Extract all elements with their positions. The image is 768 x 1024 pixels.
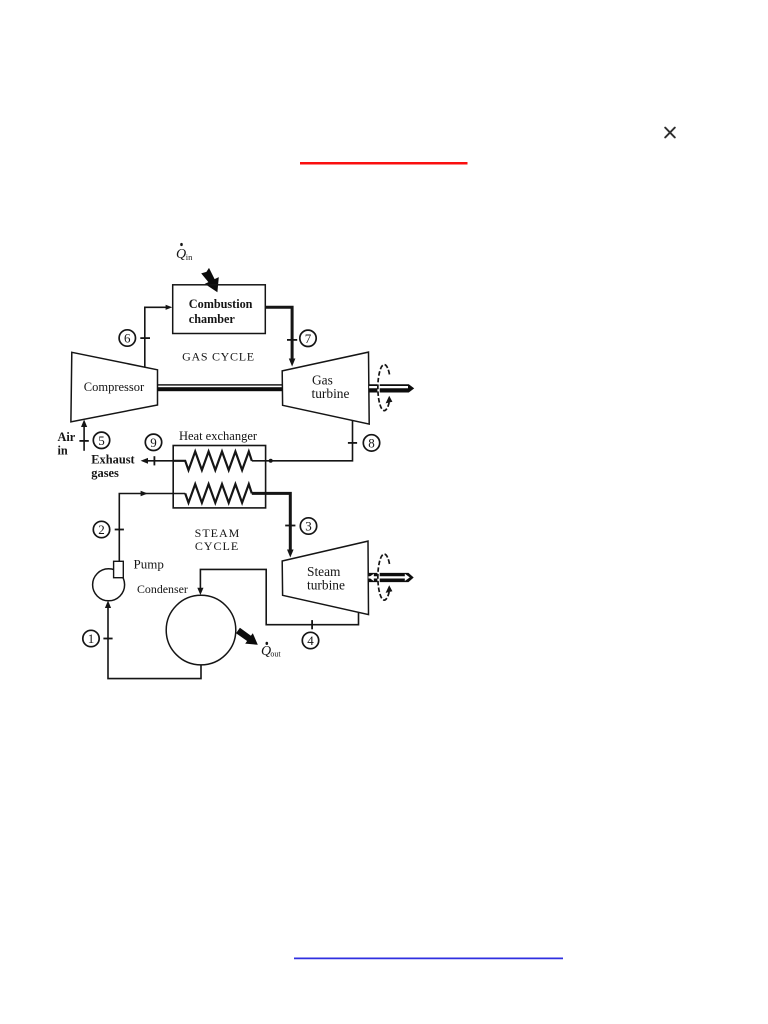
pump bbox=[93, 569, 125, 601]
flow arrowhead on wire bbox=[141, 491, 148, 497]
gas turbine output shaft bbox=[369, 384, 414, 392]
svg-text:6: 6 bbox=[124, 331, 131, 346]
svg-text:3: 3 bbox=[305, 519, 312, 534]
svg-text:in: in bbox=[186, 252, 193, 262]
rotation symbol (steam turbine shaft) bbox=[378, 554, 390, 600]
node 3 tick bbox=[285, 525, 295, 527]
node 7 bbox=[300, 330, 316, 346]
node 1 bbox=[83, 630, 99, 646]
steam turbine bbox=[282, 541, 368, 615]
svg-text:out: out bbox=[270, 650, 281, 659]
arrowhead into condenser bbox=[197, 588, 203, 595]
blue horizontal rule (bottom link underline) bbox=[294, 957, 563, 959]
heat exchanger box bbox=[173, 446, 265, 508]
node 2 tick bbox=[115, 529, 124, 531]
label Q_in bbox=[176, 243, 193, 262]
red horizontal rule bbox=[300, 162, 468, 165]
svg-text:Exhaust: Exhaust bbox=[91, 453, 135, 467]
node 8 tick bbox=[348, 442, 357, 444]
node 2 bbox=[93, 521, 109, 537]
gas turbine bbox=[282, 352, 369, 424]
svg-text:1: 1 bbox=[88, 631, 95, 646]
svg-text:Condenser: Condenser bbox=[137, 582, 188, 596]
node 3 bbox=[300, 518, 316, 534]
wire 3: heat exchanger to steam turbine (thick) bbox=[252, 493, 290, 551]
svg-text:4: 4 bbox=[307, 633, 314, 648]
label STEAM CYCLE bbox=[195, 526, 241, 553]
wire 6: compressor top to combustion chamber bbox=[145, 307, 167, 368]
svg-text:STEAM: STEAM bbox=[195, 526, 241, 540]
node 9 bbox=[145, 434, 161, 450]
svg-text:in: in bbox=[58, 444, 68, 458]
arrowhead into gas turbine bbox=[289, 359, 296, 367]
node 6 bbox=[119, 330, 135, 346]
compressor bbox=[71, 352, 158, 422]
arrowhead into combustion chamber bbox=[166, 305, 173, 310]
wire 1: condenser to pump bbox=[108, 605, 201, 679]
lower coil (steam side) bbox=[185, 484, 252, 503]
svg-text:5: 5 bbox=[98, 433, 105, 448]
svg-text:Air: Air bbox=[58, 430, 76, 444]
svg-text:8: 8 bbox=[368, 436, 375, 451]
rotation symbol (gas turbine shaft) bbox=[378, 365, 390, 411]
svg-text:2: 2 bbox=[98, 522, 105, 537]
wire 4: steam turbine to condenser bbox=[200, 569, 358, 624]
label Combustion chamber bbox=[189, 297, 253, 326]
wire 7: combustion chamber to gas turbine (thick) bbox=[265, 307, 292, 360]
Q_out heat arrow bbox=[236, 628, 258, 645]
svg-text:gases: gases bbox=[91, 466, 119, 480]
svg-text:GAS CYCLE: GAS CYCLE bbox=[182, 350, 255, 364]
svg-text:Heat exchanger: Heat exchanger bbox=[179, 429, 258, 443]
wire 2 to heat exchanger lower coil bbox=[119, 494, 185, 562]
arrowhead into pump bbox=[105, 601, 111, 609]
node 5 tick bbox=[79, 440, 88, 442]
close button x bbox=[665, 128, 675, 138]
svg-text:7: 7 bbox=[305, 331, 312, 346]
node 5 bbox=[93, 432, 109, 448]
node 8 bbox=[363, 435, 379, 451]
svg-text:turbine: turbine bbox=[312, 386, 350, 401]
label Air in bbox=[58, 430, 76, 458]
node 9 tick bbox=[153, 456, 155, 465]
svg-text:Q: Q bbox=[176, 247, 186, 262]
node 4 tick bbox=[311, 620, 313, 629]
wire 8: gas turbine to heat exchanger bbox=[252, 421, 353, 461]
svg-text:Compressor: Compressor bbox=[84, 380, 145, 394]
svg-text:9: 9 bbox=[150, 435, 157, 450]
air inlet wire bbox=[83, 426, 85, 451]
svg-text:Pump: Pump bbox=[134, 557, 164, 572]
exhaust wire out of heat exchanger (node 9) bbox=[146, 460, 173, 462]
svg-text:CYCLE: CYCLE bbox=[195, 539, 239, 553]
svg-text:Combustion: Combustion bbox=[189, 297, 253, 311]
node 6 tick bbox=[140, 337, 150, 339]
Q_in heat arrow into combustion chamber bbox=[201, 268, 219, 292]
upper coil (gas side) bbox=[173, 452, 252, 471]
condenser bbox=[166, 595, 236, 665]
node 4 bbox=[302, 632, 318, 648]
node 1 tick bbox=[103, 638, 112, 640]
steam turbine output shaft bbox=[369, 573, 414, 582]
label Q_out bbox=[261, 642, 281, 659]
svg-text:turbine: turbine bbox=[307, 578, 345, 593]
shaft compressor to gas turbine bbox=[158, 384, 283, 391]
label Exhaust gases bbox=[91, 453, 135, 481]
arrowhead into steam turbine bbox=[287, 550, 294, 558]
svg-text:chamber: chamber bbox=[189, 312, 236, 326]
combustion chamber box bbox=[173, 285, 266, 334]
node 7 tick bbox=[287, 339, 297, 341]
junction dot bbox=[269, 459, 273, 463]
